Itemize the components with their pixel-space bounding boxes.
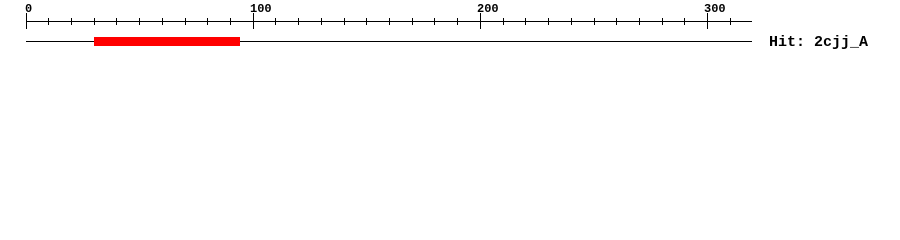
ruler label 300 xyxy=(704,2,726,16)
major tick 100 xyxy=(253,13,254,29)
minor ticks (every 10 residues) xyxy=(48,18,731,25)
svg-text:Hit: 2cjj_A: Hit: 2cjj_A xyxy=(769,34,868,51)
major tick 200 xyxy=(480,13,481,29)
ruler label 100 xyxy=(250,2,272,16)
svg-text:0: 0 xyxy=(25,2,32,16)
ruler label 200 xyxy=(477,2,499,16)
major tick 0 xyxy=(26,13,27,29)
major tick 300 xyxy=(707,13,708,29)
query sequence line xyxy=(26,41,752,42)
hit bar 2cjj_A (red, residues ~30-94) xyxy=(94,37,240,46)
hit label Hit: 2cjj_A xyxy=(769,34,868,51)
background xyxy=(0,0,900,60)
svg-text:300: 300 xyxy=(704,2,726,16)
svg-text:100: 100 xyxy=(250,2,272,16)
ruler axis line xyxy=(26,21,752,22)
svg-text:200: 200 xyxy=(477,2,499,16)
ruler label 0 xyxy=(25,2,32,16)
